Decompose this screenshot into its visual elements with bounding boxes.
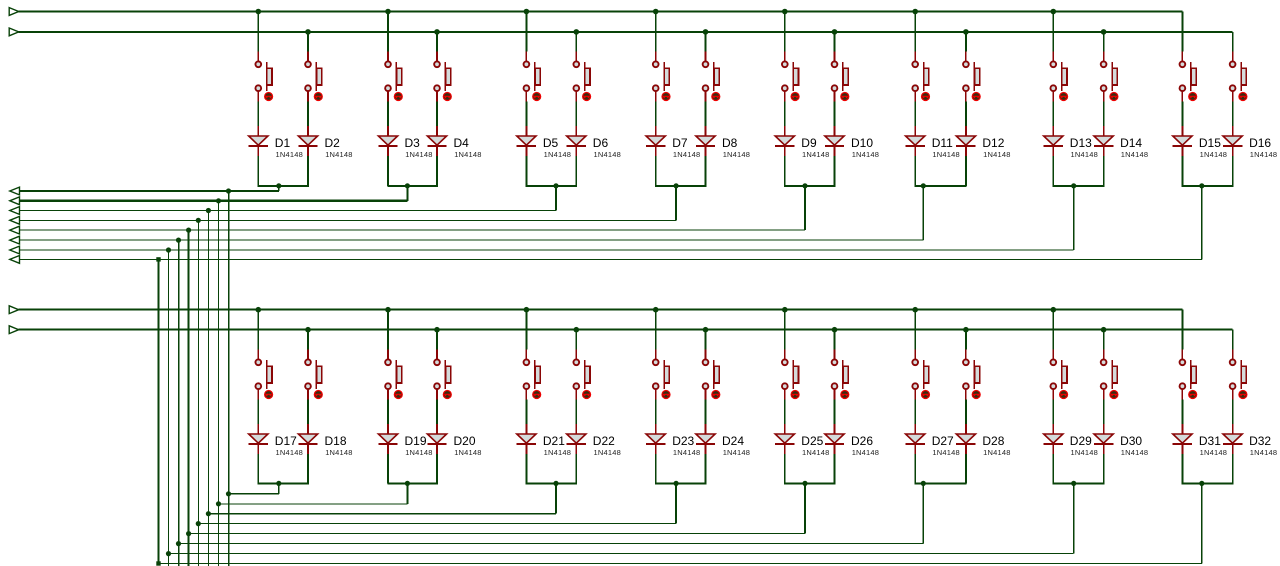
switch S16 bbox=[1230, 52, 1247, 102]
diode D32 bbox=[1223, 424, 1242, 454]
wire bbox=[307, 156, 309, 186]
wire bbox=[965, 102, 967, 127]
wire bbox=[1103, 156, 1105, 186]
diode D8 bbox=[696, 126, 715, 156]
wire bbox=[914, 156, 916, 186]
wire net column D22 from bus bbox=[575, 330, 577, 350]
wire bbox=[705, 400, 707, 425]
wire bbox=[525, 400, 527, 425]
svg-text:D3: D3 bbox=[405, 136, 421, 150]
wire net column D15 from bus bbox=[1181, 12, 1183, 52]
switch S25 bbox=[782, 350, 799, 400]
wire net column D5 from bus bbox=[525, 12, 527, 52]
wire bbox=[436, 454, 438, 483]
diode D29 bbox=[1044, 424, 1063, 454]
wire pair D25/D26 join bbox=[784, 482, 835, 484]
wire drop to ROW5 bbox=[804, 186, 806, 230]
junction pair D13/D14 bbox=[1071, 183, 1076, 188]
junction on bus at D25 bbox=[782, 307, 788, 313]
wire bbox=[914, 454, 916, 483]
svg-text:D30: D30 bbox=[1120, 434, 1142, 448]
wire bbox=[1052, 400, 1054, 425]
switch S19 bbox=[385, 350, 402, 400]
junction ROW4 / bottom row bbox=[196, 521, 201, 526]
wire bbox=[834, 102, 836, 127]
switch S3 bbox=[385, 52, 402, 102]
junction ROW4 / vertical bbox=[196, 218, 201, 223]
svg-text:1N4148: 1N4148 bbox=[1071, 448, 1098, 457]
junction ROW1 / bottom row bbox=[226, 491, 231, 496]
wire drop to ROW1 bottom bbox=[278, 483, 280, 493]
wire pair D3/D4 join bbox=[387, 185, 438, 187]
diode D31 bbox=[1173, 424, 1192, 454]
pin ROW8 bbox=[10, 256, 20, 264]
diode D12 bbox=[956, 126, 975, 156]
pin ROW2 bbox=[10, 197, 20, 205]
junction on bus at D29 bbox=[1051, 307, 1057, 313]
switch S9 bbox=[782, 52, 799, 102]
wire bbox=[705, 156, 707, 186]
diode D6 bbox=[567, 126, 586, 156]
diode D18 bbox=[298, 424, 317, 454]
svg-text:D29: D29 bbox=[1070, 434, 1092, 448]
wire net column D9 from bus bbox=[784, 12, 786, 52]
wire pair D17/D18 join bbox=[258, 482, 309, 484]
diode D26 bbox=[825, 424, 844, 454]
junction on bus at D26 bbox=[832, 327, 838, 333]
junction on bus at D9 bbox=[782, 9, 788, 15]
wire drop to ROW8 bbox=[1201, 186, 1203, 260]
wire bbox=[257, 102, 259, 127]
switch S22 bbox=[573, 350, 590, 400]
svg-text:D32: D32 bbox=[1249, 434, 1271, 448]
wire bbox=[1181, 400, 1183, 425]
svg-text:1N4148: 1N4148 bbox=[405, 150, 432, 159]
switch S4 bbox=[434, 52, 451, 102]
diode D21 bbox=[517, 424, 536, 454]
junction pair D3/D4 bbox=[405, 183, 410, 188]
wire net ROW1 bottom branch bbox=[229, 493, 279, 495]
svg-text:D24: D24 bbox=[722, 434, 744, 448]
switch S31 bbox=[1180, 350, 1197, 400]
junction on bus at D8 bbox=[703, 29, 709, 35]
switch S17 bbox=[255, 350, 272, 400]
diode D4 bbox=[427, 126, 446, 156]
wire bbox=[307, 102, 309, 127]
wire net ROW8 bbox=[20, 258, 1202, 260]
wire net column D3 from bus bbox=[387, 12, 389, 52]
svg-text:D2: D2 bbox=[325, 136, 341, 150]
wire ROW3 vertical riser bbox=[207, 211, 209, 566]
svg-text:D6: D6 bbox=[593, 136, 609, 150]
switch S32 bbox=[1230, 350, 1247, 400]
switch S29 bbox=[1050, 350, 1067, 400]
svg-text:D9: D9 bbox=[801, 136, 817, 150]
wire ROW2 vertical riser bbox=[218, 201, 220, 566]
svg-text:D20: D20 bbox=[454, 434, 476, 448]
wire ROW4 vertical riser bbox=[197, 220, 199, 566]
switch S23 bbox=[653, 350, 670, 400]
junction on bus at D21 bbox=[524, 307, 530, 313]
wire net column D18 from bus bbox=[307, 330, 309, 350]
diode D27 bbox=[906, 424, 925, 454]
junction pair D25/D26 bbox=[802, 481, 807, 486]
wire bbox=[834, 156, 836, 186]
diode D5 bbox=[517, 126, 536, 156]
wire pair D11/D12 join bbox=[914, 185, 966, 187]
junction pair D17/D18 bbox=[276, 481, 281, 486]
svg-text:D25: D25 bbox=[801, 434, 823, 448]
wire bbox=[705, 102, 707, 127]
wire bbox=[1103, 400, 1105, 425]
svg-text:1N4148: 1N4148 bbox=[673, 150, 700, 159]
svg-text:1N4148: 1N4148 bbox=[325, 150, 352, 159]
svg-text:1N4148: 1N4148 bbox=[932, 448, 959, 457]
wire ROW1 vertical riser bbox=[228, 191, 230, 566]
wire bbox=[1232, 454, 1234, 483]
pin COL-C bbox=[9, 306, 19, 314]
wire bbox=[784, 156, 786, 186]
svg-text:1N4148: 1N4148 bbox=[544, 150, 571, 159]
svg-text:1N4148: 1N4148 bbox=[723, 150, 750, 159]
svg-text:1N4148: 1N4148 bbox=[1071, 150, 1098, 159]
diode D22 bbox=[567, 424, 586, 454]
wire bbox=[307, 400, 309, 425]
wire drop to ROW7 bbox=[1073, 186, 1075, 250]
switch S1 bbox=[255, 52, 272, 102]
svg-text:D26: D26 bbox=[851, 434, 873, 448]
switch S15 bbox=[1180, 52, 1197, 102]
wire net column D13 from bus bbox=[1052, 12, 1054, 52]
wire net ROW5 bbox=[20, 229, 806, 231]
wire bbox=[1181, 454, 1183, 483]
wire drop to ROW3 bbox=[555, 186, 557, 211]
junction ROW5 / vertical bbox=[186, 228, 191, 233]
junction on bus at D18 bbox=[305, 327, 311, 333]
junction ROW7 / bottom row bbox=[166, 551, 171, 556]
wire net ROW2 bottom branch bbox=[219, 503, 408, 505]
wire bbox=[1052, 156, 1054, 186]
diode D14 bbox=[1094, 126, 1113, 156]
svg-text:D31: D31 bbox=[1199, 434, 1221, 448]
wire bbox=[705, 454, 707, 483]
wire bus COL-C bbox=[19, 309, 1183, 311]
wire bbox=[965, 454, 967, 483]
svg-text:1N4148: 1N4148 bbox=[723, 448, 750, 457]
wire bbox=[387, 454, 389, 483]
wire net ROW6 bbox=[20, 239, 924, 241]
wire pair D31/D32 join bbox=[1182, 482, 1234, 484]
wire net ROW6 bottom branch bbox=[179, 543, 924, 545]
wire bbox=[1052, 102, 1054, 127]
wire bbox=[525, 454, 527, 483]
switch S10 bbox=[832, 52, 849, 102]
wire pair D23/D24 join bbox=[655, 482, 706, 484]
switch S8 bbox=[703, 52, 720, 102]
wire pair D1/D2 join bbox=[258, 185, 309, 187]
wire bbox=[834, 454, 836, 483]
junction ROW7 / vertical bbox=[166, 247, 171, 252]
wire net column D4 from bus bbox=[436, 32, 438, 52]
junction pair D23/D24 bbox=[674, 481, 679, 486]
junction pair D27/D28 bbox=[921, 481, 926, 486]
switch S6 bbox=[573, 52, 590, 102]
svg-text:D14: D14 bbox=[1120, 136, 1142, 150]
svg-text:1N4148: 1N4148 bbox=[852, 150, 879, 159]
diode D15 bbox=[1173, 126, 1192, 156]
svg-text:1N4148: 1N4148 bbox=[1200, 448, 1227, 457]
diode D23 bbox=[646, 424, 665, 454]
wire drop to ROW5 bottom bbox=[804, 483, 806, 533]
wire bus COL-A bbox=[19, 11, 1183, 13]
wire pair D7/D8 join bbox=[655, 185, 706, 187]
diode D28 bbox=[956, 424, 975, 454]
junction on bus at D13 bbox=[1051, 9, 1057, 15]
wire net ROW1 bbox=[20, 190, 279, 192]
switch S14 bbox=[1101, 52, 1118, 102]
junction pair D15/D16 bbox=[1199, 183, 1204, 188]
svg-text:D12: D12 bbox=[982, 136, 1004, 150]
wire net ROW3 bottom branch bbox=[208, 513, 556, 515]
wire net column D7 from bus bbox=[655, 12, 657, 52]
wire net column D29 from bus bbox=[1052, 310, 1054, 350]
svg-text:D21: D21 bbox=[543, 434, 565, 448]
wire bbox=[965, 156, 967, 186]
wire bbox=[1232, 102, 1234, 127]
junction ROW3 / bottom row bbox=[206, 511, 211, 516]
pin ROW3 bbox=[10, 207, 20, 215]
svg-text:1N4148: 1N4148 bbox=[405, 448, 432, 457]
junction ROW8 corner bbox=[156, 257, 160, 261]
svg-text:D8: D8 bbox=[722, 136, 738, 150]
wire pair D15/D16 join bbox=[1182, 185, 1234, 187]
diode D9 bbox=[775, 126, 794, 156]
svg-text:D28: D28 bbox=[982, 434, 1004, 448]
wire bus COL-B bbox=[19, 31, 1233, 33]
wire drop to ROW2 bbox=[406, 186, 408, 201]
wire bbox=[575, 454, 577, 483]
wire net column D28 from bus bbox=[965, 330, 967, 350]
junction on bus at D14 bbox=[1101, 29, 1107, 35]
wire net column D32 from bus bbox=[1232, 330, 1234, 350]
wire drop to ROW6 bottom bbox=[922, 483, 924, 543]
wire bbox=[307, 454, 309, 483]
wire bbox=[784, 102, 786, 127]
wire bbox=[436, 156, 438, 186]
wire bbox=[655, 454, 657, 483]
wire net column D8 from bus bbox=[705, 32, 707, 52]
junction on bus at D11 bbox=[912, 9, 918, 15]
wire bbox=[387, 156, 389, 186]
wire bbox=[965, 400, 967, 425]
wire bbox=[1181, 102, 1183, 127]
wire bbox=[575, 102, 577, 127]
junction on bus at D30 bbox=[1101, 327, 1107, 333]
svg-text:1N4148: 1N4148 bbox=[932, 150, 959, 159]
wire bbox=[914, 102, 916, 127]
wire bbox=[436, 400, 438, 425]
wire net column D31 from bus bbox=[1181, 310, 1183, 350]
junction ROW2 / bottom row bbox=[216, 501, 221, 506]
wire bbox=[257, 454, 259, 483]
junction on bus at D2 bbox=[305, 29, 311, 35]
wire bbox=[1232, 400, 1234, 425]
diode D1 bbox=[249, 126, 268, 156]
junction on bus at D28 bbox=[963, 327, 969, 333]
wire net column D12 from bus bbox=[965, 32, 967, 52]
diode D16 bbox=[1223, 126, 1242, 156]
pin ROW6 bbox=[10, 236, 20, 244]
junction pair D19/D20 bbox=[405, 481, 410, 486]
wire drop to ROW7 bottom bbox=[1073, 483, 1075, 553]
junction ROW3 / vertical bbox=[206, 208, 211, 213]
wire net column D27 from bus bbox=[914, 310, 916, 350]
svg-text:1N4148: 1N4148 bbox=[802, 448, 829, 457]
svg-text:D22: D22 bbox=[593, 434, 615, 448]
junction on bus at D27 bbox=[912, 307, 918, 313]
pin ROW1 bbox=[10, 187, 20, 195]
svg-text:1N4148: 1N4148 bbox=[802, 150, 829, 159]
switch S13 bbox=[1050, 52, 1067, 102]
wire bbox=[257, 156, 259, 186]
pin COL-D bbox=[9, 326, 19, 334]
switch S26 bbox=[832, 350, 849, 400]
wire net column D23 from bus bbox=[655, 310, 657, 350]
wire bus COL-D bbox=[19, 329, 1233, 331]
junction ROW6 / vertical bbox=[176, 238, 181, 243]
junction on bus at D3 bbox=[385, 9, 391, 15]
pin COL-B bbox=[9, 28, 19, 36]
diode D19 bbox=[378, 424, 397, 454]
wire bbox=[914, 400, 916, 425]
svg-text:D1: D1 bbox=[275, 136, 291, 150]
wire bbox=[257, 400, 259, 425]
wire net column D16 from bus bbox=[1232, 32, 1234, 52]
junction pair D21/D22 bbox=[553, 481, 558, 486]
junction on bus at D12 bbox=[963, 29, 969, 35]
wire net ROW4 bottom branch bbox=[198, 523, 676, 525]
svg-text:1N4148: 1N4148 bbox=[673, 448, 700, 457]
switch S27 bbox=[912, 350, 929, 400]
svg-text:1N4148: 1N4148 bbox=[276, 150, 303, 159]
wire net column D10 from bus bbox=[834, 32, 836, 52]
wire bbox=[575, 400, 577, 425]
svg-text:1N4148: 1N4148 bbox=[852, 448, 879, 457]
wire net column D25 from bus bbox=[784, 310, 786, 350]
junction ROW1 / vertical bbox=[226, 188, 231, 193]
junction pair D11/D12 bbox=[921, 183, 926, 188]
junction ROW8 / bottom row bbox=[156, 561, 160, 565]
switch S12 bbox=[963, 52, 980, 102]
diode D10 bbox=[825, 126, 844, 156]
svg-text:D10: D10 bbox=[851, 136, 873, 150]
wire net ROW8 bottom branch bbox=[159, 563, 1202, 565]
wire bbox=[834, 400, 836, 425]
wire bbox=[525, 156, 527, 186]
wire bbox=[1103, 454, 1105, 483]
switch S5 bbox=[524, 52, 541, 102]
junction on bus at D19 bbox=[385, 307, 391, 313]
switch S24 bbox=[703, 350, 720, 400]
wire pair D21/D22 join bbox=[526, 482, 577, 484]
wire net ROW7 bottom branch bbox=[169, 553, 1074, 555]
wire net column D14 from bus bbox=[1103, 32, 1105, 52]
wire bbox=[1181, 156, 1183, 186]
svg-text:D27: D27 bbox=[932, 434, 954, 448]
wire drop to ROW6 bbox=[922, 186, 924, 240]
wire net column D17 from bus bbox=[257, 310, 259, 350]
junction on bus at D6 bbox=[574, 29, 580, 35]
wire bbox=[655, 400, 657, 425]
svg-text:D11: D11 bbox=[932, 136, 953, 150]
svg-text:1N4148: 1N4148 bbox=[454, 448, 481, 457]
wire ROW8 vertical riser bbox=[158, 259, 160, 563]
diode D30 bbox=[1094, 424, 1113, 454]
junction on bus at D24 bbox=[703, 327, 709, 333]
junction on bus at D7 bbox=[653, 9, 659, 15]
svg-text:1N4148: 1N4148 bbox=[454, 150, 481, 159]
svg-text:1N4148: 1N4148 bbox=[1121, 150, 1148, 159]
svg-text:D19: D19 bbox=[405, 434, 427, 448]
junction pair D5/D6 bbox=[553, 183, 558, 188]
wire net column D21 from bus bbox=[525, 310, 527, 350]
svg-text:1N4148: 1N4148 bbox=[1250, 448, 1277, 457]
wire net ROW4 bbox=[20, 219, 677, 221]
wire drop to ROW1 bbox=[278, 186, 280, 191]
svg-text:1N4148: 1N4148 bbox=[983, 448, 1010, 457]
junction on bus at D22 bbox=[574, 327, 580, 333]
wire net column D30 from bus bbox=[1103, 330, 1105, 350]
wire bbox=[575, 156, 577, 186]
junction on bus at D23 bbox=[653, 307, 659, 313]
diode D3 bbox=[378, 126, 397, 156]
svg-text:D16: D16 bbox=[1249, 136, 1271, 150]
junction pair D7/D8 bbox=[674, 183, 679, 188]
wire pair D9/D10 join bbox=[784, 185, 835, 187]
wire bbox=[784, 400, 786, 425]
wire bbox=[784, 454, 786, 483]
svg-text:D18: D18 bbox=[325, 434, 347, 448]
svg-text:1N4148: 1N4148 bbox=[544, 448, 571, 457]
wire net column D11 from bus bbox=[914, 12, 916, 52]
wire net column D20 from bus bbox=[436, 330, 438, 350]
wire bbox=[387, 102, 389, 127]
junction ROW2 / vertical bbox=[216, 198, 221, 203]
svg-text:1N4148: 1N4148 bbox=[594, 448, 621, 457]
diode D20 bbox=[427, 424, 446, 454]
wire pair D27/D28 join bbox=[914, 482, 966, 484]
wire net column D19 from bus bbox=[387, 310, 389, 350]
wire bbox=[387, 400, 389, 425]
wire bbox=[1232, 156, 1234, 186]
wire net ROW5 bottom branch bbox=[189, 533, 805, 535]
wire net column D1 from bus bbox=[257, 12, 259, 52]
switch S20 bbox=[434, 350, 451, 400]
svg-text:1N4148: 1N4148 bbox=[1121, 448, 1148, 457]
switch S7 bbox=[653, 52, 670, 102]
wire pair D13/D14 join bbox=[1053, 185, 1105, 187]
svg-text:1N4148: 1N4148 bbox=[983, 150, 1010, 159]
pin ROW5 bbox=[10, 226, 20, 234]
switch S28 bbox=[963, 350, 980, 400]
diode D17 bbox=[249, 424, 268, 454]
wire ROW6 vertical riser bbox=[178, 240, 180, 566]
wire net ROW3 bbox=[20, 210, 557, 212]
junction pair D9/D10 bbox=[802, 183, 807, 188]
svg-text:D4: D4 bbox=[454, 136, 470, 150]
junction pair D31/D32 bbox=[1199, 481, 1204, 486]
switch S2 bbox=[305, 52, 322, 102]
